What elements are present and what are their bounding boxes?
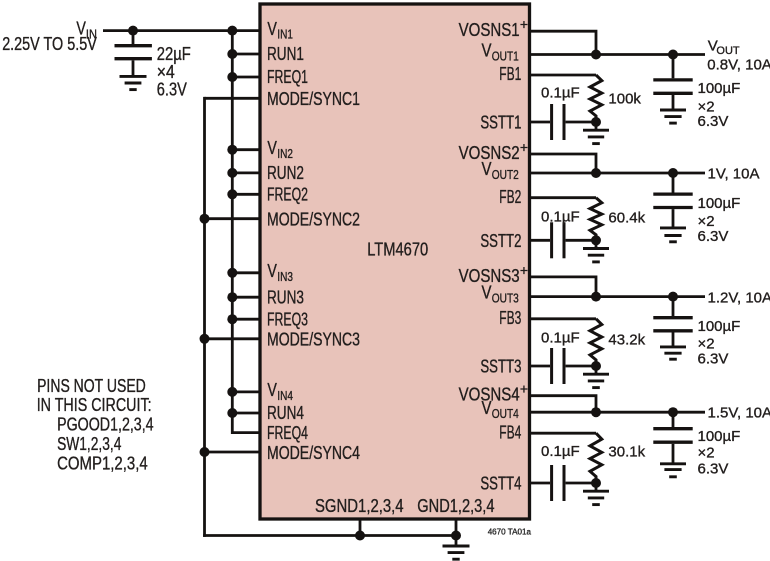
- wire FB1 to resistor: [530, 74, 597, 77]
- wire VIN2 pin stub: [232, 148, 261, 151]
- svg-text:MODE/SYNC3: MODE/SYNC3: [267, 330, 360, 350]
- svg-text:RUN4: RUN4: [267, 403, 304, 423]
- wire FREQ3 pin stub: [232, 318, 261, 321]
- wire VOUT1 output: [530, 53, 706, 56]
- svg-text:OUT: OUT: [716, 45, 740, 57]
- node RUN3 bus junction: [227, 292, 237, 302]
- svg-text:100µF: 100µF: [698, 195, 741, 212]
- wire VOUT4 output: [530, 411, 706, 414]
- resistor R1 100k FB1 to SSTT1 node: [590, 75, 602, 122]
- svg-text:0.8V, 10A: 0.8V, 10A: [707, 56, 770, 73]
- node VOUT4/COUT4 junction: [668, 407, 678, 417]
- svg-text:OUT2: OUT2: [492, 167, 519, 182]
- ground below COUT3: [660, 347, 686, 359]
- svg-text:0.1µF: 0.1µF: [541, 443, 580, 460]
- svg-text:6.3V: 6.3V: [698, 350, 729, 367]
- pin label VIN3: [267, 261, 293, 284]
- svg-text:GND1,2,3,4: GND1,2,3,4: [417, 496, 494, 516]
- wire FB3 to resistor: [530, 317, 597, 320]
- wire SSTT3 to capacitor: [530, 365, 551, 368]
- wire MODE/SYNC4 pin stub: [205, 451, 262, 454]
- capacitor COUT1 100µF x2: [653, 55, 692, 111]
- node VOUT1/VOSNS1 junction: [591, 50, 601, 60]
- wire VOUT2 output: [530, 172, 706, 175]
- resistor R4 30.1k FB4 to SSTT4 node: [590, 433, 602, 483]
- svg-text:COMP1,2,3,4: COMP1,2,3,4: [57, 453, 148, 473]
- svg-text:+: +: [520, 381, 528, 397]
- svg-text:VOSNS1: VOSNS1: [459, 20, 520, 40]
- ground main symbol at GND: [443, 546, 470, 559]
- svg-text:SSTT4: SSTT4: [480, 474, 521, 494]
- wire VIN4 pin stub: [232, 390, 261, 393]
- svg-text:FREQ4: FREQ4: [267, 423, 308, 443]
- wire MODE/SYNC3 pin stub: [205, 337, 262, 340]
- svg-text:100µF: 100µF: [698, 428, 741, 445]
- capacitor C2 0.1µF series on SSTT2: [552, 222, 596, 258]
- svg-text:RUN1: RUN1: [267, 44, 304, 64]
- svg-text:FB1: FB1: [499, 64, 521, 84]
- wire FB2 to resistor: [530, 196, 597, 199]
- capacitor COUT2 100µF x2: [653, 173, 692, 228]
- svg-text:FB3: FB3: [499, 308, 521, 328]
- wire VOUT3 output: [530, 295, 706, 298]
- wire VOSNS3 elbow to VOUT3: [530, 277, 597, 297]
- svg-text:V: V: [267, 19, 277, 39]
- capacitor C1 0.1µF series on SSTT1: [552, 104, 596, 140]
- wire SSTT4 to capacitor: [530, 482, 551, 485]
- node GND junction on ground rail: [451, 531, 461, 541]
- wire MODE/SYNC1 pin stub: [205, 97, 262, 100]
- svg-text:IN4: IN4: [277, 388, 293, 403]
- pin label VOSNS2+: [459, 139, 528, 163]
- label VIN: [76, 19, 97, 42]
- svg-text:0.1µF: 0.1µF: [541, 208, 580, 225]
- pin label VOSNS4+: [459, 381, 528, 405]
- label VOUT 0.8V 10A: [707, 38, 770, 74]
- wire SSTT1 to capacitor: [530, 121, 551, 124]
- svg-text:LTM4670: LTM4670: [367, 240, 428, 260]
- pin label VOSNS1+: [459, 16, 528, 40]
- capacitor COUT3 100µF x2: [653, 297, 692, 347]
- pin label VOUT4: [482, 398, 519, 421]
- svg-text:MODE/SYNC1: MODE/SYNC1: [267, 89, 360, 109]
- svg-text:FB2: FB2: [499, 187, 521, 207]
- wire RUN2 pin stub: [232, 171, 261, 174]
- node VOUT3/COUT3 junction: [668, 292, 678, 302]
- wire stub to ground SSTT4: [595, 483, 598, 491]
- wire stub to ground SSTT3: [595, 366, 598, 374]
- node RUN1 bus junction: [227, 49, 237, 59]
- svg-text:V: V: [482, 159, 492, 179]
- pin label VIN1: [267, 19, 293, 42]
- svg-text:V: V: [482, 398, 492, 418]
- wire stub to ground SSTT1: [595, 122, 598, 130]
- svg-text:SSTT2: SSTT2: [480, 231, 521, 251]
- node RUN4 bus junction: [227, 408, 237, 418]
- pin label VOUT1: [482, 41, 519, 64]
- wire RUN4 pin stub: [232, 412, 261, 415]
- node MODE/SYNC3 bus junction: [200, 334, 210, 344]
- wire RUN3 pin stub: [232, 296, 261, 299]
- wire VOSNS1 elbow to VOUT1: [530, 31, 597, 54]
- svg-text:1.2V, 10A: 1.2V, 10A: [708, 290, 770, 307]
- pin label VOSNS3+: [459, 262, 528, 286]
- svg-text:V: V: [482, 41, 492, 61]
- node VIN2 bus junction: [227, 145, 237, 155]
- svg-text:OUT3: OUT3: [492, 290, 519, 305]
- svg-text:60.4k: 60.4k: [608, 210, 645, 227]
- svg-text:MODE/SYNC2: MODE/SYNC2: [267, 210, 360, 230]
- svg-text:6.3V: 6.3V: [698, 113, 729, 130]
- node SSTT1/R1 junction: [591, 117, 601, 127]
- svg-text:+: +: [520, 262, 528, 278]
- svg-text:1V, 10A: 1V, 10A: [708, 166, 760, 183]
- svg-text:V: V: [267, 138, 277, 158]
- wire VOSNS4 elbow to VOUT4: [530, 396, 597, 413]
- svg-text:FREQ1: FREQ1: [267, 67, 308, 87]
- IC U1 LTM4670 body: [260, 4, 530, 519]
- svg-text:+: +: [520, 16, 528, 32]
- svg-text:SSTT3: SSTT3: [480, 357, 521, 377]
- svg-text:IN2: IN2: [277, 146, 293, 161]
- svg-text:100µF: 100µF: [698, 318, 741, 335]
- node SSTT2/R2 junction: [591, 235, 601, 245]
- svg-text:FREQ3: FREQ3: [267, 309, 308, 329]
- wire bottom ground rail: [203, 534, 456, 537]
- svg-text:OUT1: OUT1: [492, 48, 519, 63]
- svg-text:V: V: [267, 380, 277, 400]
- node VOUT2/VOSNS2 junction: [591, 168, 601, 178]
- ground below CIN: [120, 76, 147, 89]
- capacitor COUT4 100µF x2: [653, 412, 692, 464]
- svg-text:V: V: [482, 283, 492, 303]
- svg-text:100µF: 100µF: [698, 80, 741, 97]
- ground at SSTT2 node: [583, 249, 609, 262]
- node VOUT3/VOSNS3 junction: [591, 292, 601, 302]
- ground at SSTT1 node: [583, 130, 609, 143]
- capacitor C4 0.1µF series on SSTT4: [552, 465, 596, 501]
- svg-text:RUN2: RUN2: [267, 163, 304, 183]
- svg-text:SSTT1: SSTT1: [480, 113, 521, 133]
- svg-text:V: V: [267, 261, 277, 281]
- wire MODE/SYNC2 pin stub: [205, 217, 262, 220]
- node VOUT2/COUT2 junction: [668, 168, 678, 178]
- pin label VIN4: [267, 380, 293, 403]
- svg-text:IN3: IN3: [277, 269, 293, 284]
- svg-text:MODE/SYNC4: MODE/SYNC4: [267, 443, 360, 463]
- svg-text:6.3V: 6.3V: [157, 79, 187, 99]
- svg-text:RUN3: RUN3: [267, 287, 304, 307]
- node VOUT4/VOSNS4 junction: [591, 407, 601, 417]
- svg-text:+: +: [520, 139, 528, 155]
- pin label VIN2: [267, 138, 293, 161]
- svg-text:6.3V: 6.3V: [698, 228, 729, 245]
- node FREQ3 bus junction: [227, 314, 237, 324]
- wire MODE/SYNC bus vertical: [203, 97, 206, 537]
- note PINS NOT USED block: [37, 376, 154, 473]
- ground at SSTT4 node: [583, 491, 609, 504]
- svg-text:FB4: FB4: [499, 422, 521, 442]
- node FREQ1 bus junction: [227, 72, 237, 82]
- wire stub to ground SSTT2: [595, 240, 598, 248]
- svg-text:SW1,2,3,4: SW1,2,3,4: [57, 434, 121, 454]
- svg-text:×2: ×2: [698, 444, 715, 461]
- svg-text:2.25V TO 5.5V: 2.25V TO 5.5V: [2, 34, 97, 54]
- capacitor C3 0.1µF series on SSTT3: [552, 348, 596, 384]
- svg-text:30.1k: 30.1k: [608, 444, 645, 461]
- svg-text:IN THIS CIRCUIT:: IN THIS CIRCUIT:: [37, 395, 152, 415]
- svg-text:0.1µF: 0.1µF: [541, 84, 580, 101]
- svg-text:FREQ2: FREQ2: [267, 185, 308, 205]
- svg-text:SGND1,2,3,4: SGND1,2,3,4: [315, 496, 404, 516]
- svg-text:PINS NOT USED: PINS NOT USED: [37, 376, 146, 396]
- node VIN3 bus junction: [227, 268, 237, 278]
- node RUN2 bus junction: [227, 168, 237, 178]
- svg-text:IN1: IN1: [277, 27, 293, 42]
- wire SGND pin drop: [359, 519, 362, 536]
- svg-text:4670 TA01a: 4670 TA01a: [488, 527, 532, 537]
- node FREQ2 bus junction: [227, 189, 237, 199]
- resistor R2 60.4k FB2 to SSTT2 node: [590, 198, 602, 241]
- svg-text:1.5V, 10A: 1.5V, 10A: [708, 405, 770, 422]
- wire FB4 to resistor: [530, 432, 597, 435]
- wire GND pin drop: [455, 519, 458, 546]
- wire VIN input to VIN1 pin: [103, 29, 261, 32]
- svg-text:43.2k: 43.2k: [608, 332, 645, 349]
- svg-text:100k: 100k: [608, 91, 641, 108]
- node SSTT4/R4 junction: [591, 478, 601, 488]
- node MODE/SYNC2 bus junction: [200, 214, 210, 224]
- ground below COUT4: [660, 464, 686, 477]
- wire VIN bus vertical: [231, 31, 234, 434]
- pin label VOUT3: [482, 283, 519, 306]
- wire FREQ1 pin stub: [232, 76, 261, 79]
- svg-text:0.1µF: 0.1µF: [541, 330, 580, 347]
- wire SSTT2 to capacitor: [530, 239, 551, 242]
- wire VOSNS2 elbow to VOUT2: [530, 154, 597, 173]
- node VIN4 bus junction: [227, 387, 237, 397]
- node SGND junction on ground rail: [355, 531, 365, 541]
- capacitor CIN 22µF x4: [115, 31, 152, 77]
- svg-text:6.3V: 6.3V: [698, 460, 729, 477]
- resistor R3 43.2k FB3 to SSTT3 node: [590, 319, 602, 366]
- node VIN1 bus junction: [227, 26, 237, 36]
- wire FREQ2 pin stub: [232, 193, 261, 196]
- ground at SSTT3 node: [583, 374, 609, 387]
- ground below COUT2: [660, 228, 686, 242]
- node VIN input junction at CIN: [128, 26, 138, 36]
- node SSTT3/R3 junction: [591, 361, 601, 371]
- svg-text:22µF: 22µF: [157, 44, 191, 64]
- pin label VOUT2: [482, 159, 519, 182]
- svg-text:OUT4: OUT4: [492, 406, 519, 421]
- svg-text:PGOOD1,2,3,4: PGOOD1,2,3,4: [57, 414, 154, 434]
- wire RUN1 pin stub: [232, 53, 261, 56]
- wire FREQ4 pin stub: [232, 431, 261, 434]
- node VOUT1/COUT1 junction: [668, 50, 678, 60]
- node MODE/SYNC4 bus junction: [200, 447, 210, 457]
- wire VIN3 pin stub: [232, 271, 261, 274]
- ground below COUT1: [660, 110, 686, 123]
